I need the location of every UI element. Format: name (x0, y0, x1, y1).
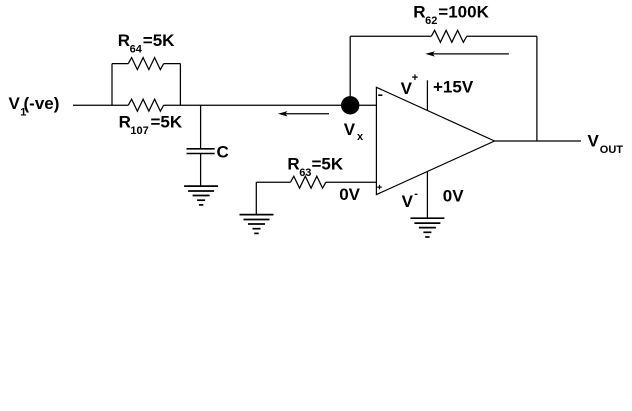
svg-text:V: V (9, 94, 21, 113)
wire feedback left vertical to node Vx (349, 36, 351, 97)
svg-text:R: R (118, 31, 130, 50)
svg-text:V: V (402, 192, 414, 211)
op-amp U1 triangle (376, 87, 494, 194)
wire left vertical connector of parallel pair (111, 64, 113, 106)
label VOUT (588, 131, 624, 155)
wire R63 left lead (256, 181, 290, 183)
label V- supply (402, 188, 419, 211)
svg-text:R: R (119, 113, 131, 132)
resistor R107 (128, 99, 163, 111)
wire positive supply stub (426, 80, 428, 110)
svg-text:=5K: =5K (143, 31, 175, 50)
svg-text:V: V (588, 131, 600, 150)
resistor R63 (291, 176, 326, 188)
svg-text:x: x (357, 131, 364, 143)
node V1 input label (9, 94, 60, 118)
svg-text:=100K: =100K (438, 3, 489, 22)
svg-text:-: - (414, 188, 418, 200)
wire input V1 to parallel resistors (73, 104, 128, 106)
svg-text:V: V (344, 120, 356, 139)
wire capacitor branch upper (200, 105, 202, 148)
node Vx junction dot (341, 96, 359, 114)
svg-text:=5K: =5K (151, 113, 183, 132)
svg-text:R: R (287, 154, 299, 173)
svg-text:64: 64 (130, 43, 143, 55)
wire top branch right lead (164, 63, 181, 65)
svg-text:+: + (412, 72, 418, 84)
svg-text:+15V: +15V (433, 78, 474, 97)
label R64=5K (118, 31, 175, 56)
wire main line from R107 to op-amp input (164, 104, 377, 106)
svg-text:0V: 0V (339, 185, 360, 204)
arrow (current direction on input wire) (278, 111, 329, 116)
svg-text:V: V (401, 79, 413, 98)
svg-text:62: 62 (425, 15, 437, 27)
wire output (495, 140, 582, 142)
label Vx (344, 120, 364, 143)
resistor R64 (128, 58, 163, 70)
label R63=5K (287, 154, 343, 179)
wire negative supply stub (426, 172, 428, 219)
svg-text:R: R (413, 3, 425, 22)
wire feedback top right segment (467, 35, 537, 37)
svg-text:(-ve): (-ve) (24, 94, 60, 113)
wire R63 right lead to op-amp + input (326, 181, 377, 183)
label R62=100K (413, 3, 489, 28)
wire top branch left lead (112, 63, 128, 65)
svg-text:63: 63 (299, 167, 311, 179)
svg-text:0V: 0V (443, 187, 464, 206)
label V+ supply (401, 72, 419, 98)
op-amp non-inverting input marker + (377, 185, 382, 190)
capacitor C (187, 149, 215, 154)
arrow (feedback current direction) (425, 51, 509, 56)
wire right vertical connector of parallel pair (179, 64, 181, 106)
ground (below capacitor) (184, 186, 218, 205)
wire ground lead for R63 (255, 182, 257, 214)
ground (op-amp negative supply) (410, 218, 444, 237)
resistor R62 (431, 30, 466, 42)
label R107=5K (119, 113, 183, 138)
ground (R63 non-inverting reference) (240, 215, 274, 234)
wire feedback top left segment (350, 35, 431, 37)
svg-text:=5K: =5K (312, 154, 344, 173)
wire feedback right vertical (536, 36, 538, 141)
wire capacitor branch lower (200, 154, 202, 187)
svg-text:OUT: OUT (600, 144, 624, 156)
svg-text:C: C (217, 143, 229, 162)
op-amp inverting input marker - (378, 94, 382, 96)
svg-text:107: 107 (130, 125, 148, 137)
